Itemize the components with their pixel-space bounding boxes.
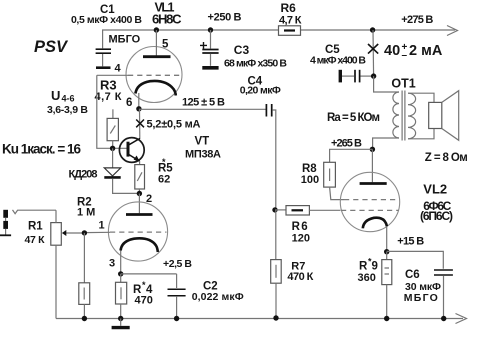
node rail R4 [118, 316, 123, 321]
wire VL2 cathode stem [386, 226, 388, 251]
wire bottom rail [56, 318, 463, 320]
svg-text:Ku 1каск. = 16: Ku 1каск. = 16 [2, 142, 81, 157]
label R4 [133, 280, 153, 307]
svg-text:4,7 К: 4,7 К [279, 15, 302, 27]
label C6 [404, 269, 441, 304]
label U4-6 [47, 88, 88, 116]
anode plate VL1 upper [143, 55, 171, 58]
svg-text:4,7 К: 4,7 К [95, 91, 122, 103]
svg-text:4: 4 [115, 63, 122, 75]
svg-text:62: 62 [158, 174, 170, 186]
control grid VL2 (dashed) [341, 209, 399, 211]
label C4 [240, 75, 281, 96]
grid VL1 upper (dashed) [128, 74, 182, 76]
label VT [185, 136, 221, 161]
svg-text:МБГО: МБГО [109, 34, 141, 46]
wire grid lead pin 4 [97, 74, 128, 76]
wire speaker bottom lead [408, 129, 434, 139]
wire down to C5 node [372, 30, 375, 76]
svg-text:1: 1 [99, 220, 105, 232]
capacitor C5 [340, 70, 373, 83]
svg-text:0,20 мкФ: 0,20 мкФ [240, 85, 281, 97]
node +265 junction [370, 147, 375, 152]
svg-text:Z = 8 Ом: Z = 8 Ом [425, 152, 468, 164]
resistor R6 (4.7K) [279, 26, 301, 36]
node cathode lower junction [118, 271, 123, 276]
svg-text:68 мкФ x350 В: 68 мкФ x350 В [224, 58, 287, 70]
wire collector lead down [139, 109, 141, 139]
svg-text:3: 3 [109, 258, 115, 270]
wire grid lead pin 1 [84, 231, 110, 233]
resistor R9 [382, 252, 392, 319]
svg-text:47 К: 47 К [25, 234, 46, 246]
label R3 [95, 78, 122, 104]
speaker [429, 91, 459, 141]
svg-text:120: 120 [292, 233, 310, 245]
label R6 120 [292, 221, 310, 244]
node rail R7 [273, 315, 278, 320]
wire primary bottom to +265 node [373, 138, 399, 149]
potentiometer R1 [51, 210, 85, 318]
svg-text:360: 360 [358, 272, 376, 284]
wire pin 3 cathode stem [120, 251, 122, 274]
transformer OT1 primary [393, 92, 399, 138]
anode plate VL2 [360, 182, 387, 185]
svg-text:0,022 мкФ: 0,022 мкФ [192, 291, 244, 303]
svg-text:+250 В: +250 В [208, 12, 242, 24]
svg-text:125 ± 5 В: 125 ± 5 В [182, 97, 225, 109]
svg-text:VT: VT [195, 136, 210, 148]
svg-text:6: 6 [126, 97, 132, 109]
label 40 mA [384, 42, 443, 61]
node rail C6 [441, 316, 446, 321]
transistor VT МП38А [119, 138, 144, 163]
svg-text:1 М: 1 М [77, 207, 95, 219]
resistor R4 [116, 274, 127, 319]
node C5 junction [371, 73, 376, 78]
svg-text:4 мкФ x400 В: 4 мкФ x400 В [310, 55, 366, 67]
svg-text:9: 9 [372, 261, 378, 273]
svg-text:470 К: 470 К [287, 271, 313, 283]
wire arrow bottom rail end [456, 314, 467, 324]
node wiper junction [82, 230, 87, 235]
wire top B+ rail left segment [102, 29, 279, 31]
cathode VL1 upper (arch) [135, 81, 175, 96]
resistor R6 (120) [275, 206, 341, 215]
wire pin 6 cathode stem [138, 93, 140, 109]
wire input to R1 [18, 209, 56, 211]
svg-text:МБГО: МБГО [404, 292, 438, 304]
label C1 value [71, 4, 142, 46]
label R9 [358, 257, 378, 285]
node rail R9 [384, 316, 389, 321]
svg-text:2 мА: 2 мА [409, 43, 443, 59]
resistor R5 [135, 161, 145, 193]
node X current measure 5.2mA [136, 120, 144, 128]
svg-text:470: 470 [135, 295, 153, 307]
svg-text:PSV: PSV [34, 38, 69, 56]
label C2 [192, 281, 244, 303]
tube VL1 (upper triode) envelope [126, 47, 182, 103]
tube VL2 envelope [340, 172, 399, 231]
svg-text:ОТ1: ОТ1 [391, 77, 415, 91]
resistor R2 [79, 233, 90, 319]
node input V mark [13, 210, 18, 214]
wire top B+ rail right segment [301, 29, 456, 31]
svg-text:Ra = 5 КОм: Ra = 5 КОм [327, 112, 380, 124]
svg-text:R 6: R 6 [292, 221, 308, 233]
capacitor C4 [266, 104, 275, 210]
svg-text:(6П6С): (6П6С) [420, 209, 453, 223]
svg-text:–: – [402, 50, 408, 61]
svg-text:30 мкФ: 30 мкФ [405, 281, 441, 293]
node VL2 cathode junction [384, 249, 389, 254]
svg-text:5,2±0,5 мА: 5,2±0,5 мА [147, 119, 201, 131]
resistor R7 [271, 210, 282, 319]
anode plate VL1 lower [126, 213, 153, 216]
transformer core [402, 91, 405, 141]
node pin5 junction on rail [154, 27, 159, 32]
wire arrow +275V rail end [447, 26, 458, 36]
svg-text:C6: C6 [405, 269, 420, 281]
transformer OT1 secondary [408, 93, 416, 139]
svg-text:R1: R1 [28, 221, 43, 233]
node cathode junction [136, 106, 141, 111]
svg-text:R5: R5 [158, 162, 173, 174]
svg-text:5: 5 [162, 39, 169, 51]
cathode VL2 (arch) [363, 218, 387, 229]
svg-text:+275 В: +275 В [401, 14, 433, 26]
svg-text:3,6-3,9 В: 3,6-3,9 В [47, 104, 88, 116]
wire cathode to C2 [121, 273, 177, 275]
svg-text:0,5 мкФ x400 В: 0,5 мкФ x400 В [71, 14, 142, 26]
svg-text:VL2: VL2 [423, 182, 447, 197]
svg-text:R: R [359, 261, 368, 273]
capacitor C2 [168, 274, 186, 319]
node rail C2 [174, 316, 179, 321]
cathode VL1 lower (arch) [121, 238, 158, 252]
label C3 [224, 43, 287, 70]
label R7 [287, 261, 313, 284]
label R2 [77, 197, 95, 219]
svg-text:100: 100 [301, 174, 319, 186]
label R5 [158, 157, 173, 186]
svg-text:+15 В: +15 В [397, 236, 424, 248]
label R6 [279, 1, 302, 27]
node X current measure 40mA [368, 44, 378, 54]
diode КД208 [104, 148, 139, 193]
wire cathode to C6 [387, 251, 444, 268]
wire VL2 anode stem [371, 149, 373, 182]
label C5 [310, 44, 366, 67]
svg-text:КД208: КД208 [69, 169, 98, 181]
label VL1 [152, 1, 182, 27]
node rail R2 [82, 316, 87, 321]
svg-text:*: * [162, 157, 166, 167]
wire to transformer primary top [374, 76, 399, 92]
svg-text:МП38А: МП38А [185, 148, 221, 160]
wire speaker top lead [408, 93, 434, 102]
wire pin 2 anode stem [138, 194, 140, 214]
svg-text:6Н8С: 6Н8С [152, 12, 182, 27]
wire grid-to-base left line [97, 75, 127, 148]
label R8 [301, 163, 319, 186]
capacitor C3 [200, 27, 219, 68]
resistor R8 [324, 162, 344, 199]
resistor R3 [107, 109, 118, 148]
node grid VL2 junction [272, 207, 277, 212]
svg-text:+265 В: +265 В [331, 137, 362, 149]
node base junction [110, 146, 115, 151]
svg-text:4-6: 4-6 [62, 94, 75, 104]
wire pin 5 anode stem [155, 30, 157, 56]
svg-text:C3: C3 [234, 43, 250, 57]
grid VL1 lower (dashed) [110, 231, 167, 233]
node rail right junction [370, 27, 375, 32]
capacitor C1 [96, 30, 111, 68]
svg-text:U: U [51, 88, 60, 103]
wire +265 to R8 [330, 149, 373, 162]
label R1 [25, 221, 46, 246]
ground [112, 319, 130, 328]
screen grid VL2 (dashed) [344, 199, 397, 201]
label VL2 [420, 182, 453, 223]
capacitor C6 [434, 270, 453, 318]
svg-text:40: 40 [384, 43, 400, 59]
tube VL1 (lower triode) envelope [108, 202, 167, 261]
svg-text:+2,5 В: +2,5 В [163, 258, 192, 270]
svg-text:R6: R6 [281, 1, 297, 15]
input jack [0, 210, 11, 236]
node pin2 junction [137, 191, 142, 196]
wire cathode node to C4 [139, 108, 266, 110]
